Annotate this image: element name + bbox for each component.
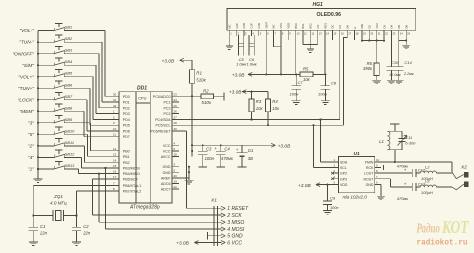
wire - AREF to ground net [179, 177, 189, 179]
svg-text:SB1: SB1 [65, 25, 72, 30]
svg-text:PC6/RESET: PC6/RESET [151, 129, 172, 133]
wire - PC0/ADC0 net [179, 95, 201, 97]
pushbutton SB4 (S/M) [22, 58, 112, 114]
svg-text:RCK: RCK [366, 166, 374, 170]
svg-text:13: 13 [113, 152, 117, 156]
resistor R5 10k [300, 67, 313, 82]
pin 24 PC1 of DD1 [164, 98, 180, 105]
pin 4 VCC of DD1 [163, 141, 179, 148]
svg-text:12: 12 [113, 147, 117, 151]
ground - C9 [323, 211, 332, 215]
connector X1 body rails [214, 206, 218, 246]
pin 3 of HG1 [242, 23, 247, 36]
svg-text:PC3: PC3 [164, 112, 171, 116]
svg-text:390к: 390к [363, 66, 373, 71]
wire - OLED pin17 SCL drop [344, 35, 348, 125]
wire - OLED pin15 stub [331, 35, 333, 40]
wire - XTAL1 line [33, 186, 112, 216]
svg-text:"MEM": "MEM" [19, 109, 34, 115]
node - bus junction [37, 168, 39, 170]
pin 26 PC3 of DD1 [164, 110, 180, 117]
IC U1 rda102v2.0 FM radio [339, 151, 375, 199]
node - crystal right [75, 214, 77, 216]
pin 19 ADC6 of DD1 [161, 180, 179, 187]
svg-text:PC5/SCL: PC5/SCL [156, 124, 171, 128]
svg-text:R4: R4 [272, 99, 278, 104]
svg-text:L2: L2 [425, 164, 430, 169]
pin 2 SCK of X1 [221, 213, 243, 219]
svg-text:SB13: SB13 [65, 163, 75, 168]
svg-text:HG1: HG1 [313, 2, 324, 8]
pushbutton SB9 (3) [28, 116, 112, 151]
wire - button common bus [37, 31, 39, 179]
svg-text:10к: 10к [272, 106, 280, 111]
node - rail/C7 [295, 73, 297, 75]
svg-text:20: 20 [174, 174, 178, 178]
pin 9 RCK of U1 [366, 164, 381, 170]
svg-text:+3.0В: +3.0В [162, 58, 175, 64]
svg-text:VCC: VCC [375, 23, 379, 29]
svg-text:100н: 100н [205, 156, 215, 161]
svg-text:AVCC: AVCC [161, 155, 171, 159]
svg-text:BS2: BS2 [309, 23, 313, 29]
svg-text:OLED0.96: OLED0.96 [317, 12, 342, 18]
terminal - GP2 open [331, 172, 334, 175]
svg-text:+3.0В: +3.0В [229, 90, 242, 96]
svg-text:18: 18 [174, 153, 178, 157]
svg-text:PC0/ADC0: PC0/ADC0 [153, 95, 171, 99]
svg-text:SCL: SCL [340, 166, 347, 170]
pin 11 PD7 of DD1 [112, 133, 130, 140]
svg-text:100н: 100н [330, 206, 339, 210]
ground - C7 [292, 101, 301, 105]
svg-text:100н: 100н [290, 92, 300, 97]
node - crystal left [32, 214, 34, 216]
svg-text:RES: RES [323, 23, 327, 29]
pin 3 GND of DD1 [163, 163, 180, 170]
capacitor C2 22p [72, 216, 91, 243]
svg-text:PD7: PD7 [123, 135, 130, 139]
pin 8 PB7/XTAL2 of DD1 [112, 187, 141, 194]
connector X1 label [210, 198, 217, 204]
svg-text:C3: C3 [206, 147, 212, 152]
svg-text:PB1: PB1 [123, 155, 130, 159]
pin 14 of HG1 [323, 23, 329, 36]
pin 6 GND of U1 [366, 181, 381, 187]
capacitor C10 10.0u [387, 35, 401, 80]
pin 15 of HG1 [331, 25, 337, 36]
wire - L2 to jack [437, 172, 453, 174]
pin 29 PC6/RESET of DD1 [151, 127, 179, 134]
pushbutton SB12 (4) [28, 150, 112, 168]
pin 7 of HG1 [272, 25, 277, 36]
pin 7 PB6/XTAL1 of DD1 [112, 182, 141, 189]
svg-text:10: 10 [113, 127, 117, 131]
svg-text:D4: D4 [390, 25, 394, 29]
node - SDA branch [319, 118, 321, 120]
node - C3 top [202, 144, 204, 146]
capacitor C3 100n [198, 145, 214, 167]
wire - VCC rail vertical [191, 96, 193, 156]
svg-text:D1: D1 [338, 25, 342, 29]
svg-text:"5": "5" [28, 132, 34, 138]
wire - SCL to U1 [314, 125, 333, 167]
svg-text:PB5/SCK: PB5/SCK [123, 178, 139, 182]
node - R4/SCL [267, 124, 269, 126]
capacitor C14 2.2u [394, 41, 414, 81]
pin 8 LOUT of U1 [364, 169, 381, 175]
svg-text:ADC6: ADC6 [161, 182, 171, 186]
svg-text:6-30п: 6-30п [405, 141, 416, 146]
pin 4 of HG1 [250, 23, 255, 36]
svg-text:C1: C1 [40, 224, 45, 229]
svg-text:23: 23 [174, 92, 178, 96]
pin 20 of HG1 [368, 25, 374, 36]
svg-text:DC: DC [331, 25, 335, 29]
svg-text:19: 19 [174, 180, 178, 184]
svg-text:C14: C14 [404, 60, 412, 65]
svg-text:PB0: PB0 [123, 149, 130, 153]
trimmer capacitor C11 6-30p [398, 131, 417, 150]
svg-text:C7: C7 [298, 80, 304, 85]
node - bus junction [37, 76, 39, 78]
svg-text:PD4: PD4 [123, 118, 130, 122]
wire - FMIN to jack [381, 162, 452, 172]
pin 1 SDA of U1 [333, 158, 348, 164]
svg-text:5 GND: 5 GND [227, 234, 243, 240]
svg-text:+: + [404, 182, 407, 187]
terminal - RCK [383, 165, 385, 170]
svg-text:16: 16 [113, 170, 117, 174]
svg-text:C2P: C2P [235, 23, 239, 28]
power +3.0V to X1 VCC [176, 241, 221, 247]
pin 11 of HG1 [301, 23, 307, 36]
svg-text:SB5: SB5 [65, 71, 73, 76]
pin 4 GP3 of U1 [333, 175, 348, 181]
svg-text:24: 24 [174, 98, 178, 102]
svg-text:470мк: 470мк [397, 196, 409, 201]
wire - +3.0V feed line [192, 144, 273, 146]
svg-text:15: 15 [113, 164, 117, 168]
svg-text:"S/M": "S/M" [22, 63, 34, 69]
svg-text:LOUT: LOUT [364, 172, 374, 176]
pin 13 of HG1 [316, 25, 322, 36]
capacitor C8 100n [318, 74, 337, 100]
svg-text:10: 10 [376, 158, 379, 162]
node - bus junction [37, 133, 39, 135]
node - bus junction [37, 64, 39, 66]
pin 20 AREF of DD1 [161, 174, 179, 181]
pin 18 AVCC of DD1 [161, 153, 179, 160]
svg-text:PC4/SDA: PC4/SDA [155, 118, 171, 122]
pin 22 ADC7 of DD1 [161, 185, 179, 192]
pin 10 of HG1 [294, 23, 300, 36]
svg-text:10к: 10к [256, 106, 264, 111]
wire - pullup top link [252, 92, 269, 99]
svg-text:ZQ1: ZQ1 [53, 194, 63, 199]
svg-text:VDD: VDD [340, 183, 348, 187]
wire - OLED pins19-22 tie [361, 35, 385, 41]
pin 27 PC4/SDA of DD1 [155, 115, 179, 122]
svg-text:D5: D5 [397, 25, 401, 29]
svg-text:"1": "1" [28, 167, 34, 173]
svg-text:+3.0В: +3.0В [278, 143, 291, 149]
svg-text:SB7: SB7 [65, 94, 73, 99]
svg-text:rda 102v2.0: rda 102v2.0 [343, 194, 368, 199]
node - C4 top [220, 144, 222, 146]
svg-text:PD5: PD5 [123, 124, 130, 128]
svg-text:"4": "4" [28, 155, 34, 161]
svg-text:3В: 3В [248, 156, 253, 161]
resistor R1 510k [190, 60, 207, 96]
resistor R3 10k [249, 92, 264, 120]
node - VCC pin4 [191, 144, 193, 146]
antenna terminal [390, 124, 399, 131]
wire - OLED pin14 drop [324, 35, 326, 74]
wire - OLED pin25 gnd tie [399, 35, 410, 49]
svg-text:"TUN+": "TUN+" [18, 86, 34, 92]
svg-text:PB2: PB2 [123, 161, 130, 165]
pin 23 PC0/ADC0 of DD1 [153, 92, 179, 99]
pushbutton SB3 (ON/OFF) [12, 46, 112, 107]
pin 6 VCC of X1 [221, 240, 243, 246]
pin 23 of HG1 [390, 25, 396, 36]
svg-text:SB2: SB2 [65, 36, 73, 41]
pin 9 of HG1 [286, 23, 291, 36]
power +3.0V to U1 VDD [298, 183, 328, 189]
connector X2 phone jack [452, 165, 469, 190]
pin 25 of HG1 [404, 25, 410, 36]
svg-text:PD1: PD1 [123, 101, 130, 105]
svg-text:32: 32 [113, 104, 117, 108]
svg-text:R2: R2 [203, 88, 209, 93]
svg-text:10к: 10к [303, 77, 311, 82]
node - bus junction [37, 41, 39, 43]
pin 25 PC2 of DD1 [164, 104, 180, 111]
svg-text:25: 25 [174, 104, 178, 108]
ground - MCU GND pins [184, 180, 193, 184]
svg-text:D2: D2 [368, 25, 372, 29]
pushbutton SB10 (5) [28, 127, 112, 156]
svg-text:4.0 МГц: 4.0 МГц [50, 200, 67, 205]
pin 12 PB0 of DD1 [112, 147, 130, 154]
svg-text:C4: C4 [224, 147, 230, 152]
svg-text:510к: 510к [196, 77, 206, 82]
pin 21 of HG1 [375, 23, 381, 36]
wire - OLED pins7-8 tie [274, 35, 282, 75]
ground - OLED pin1 [226, 35, 233, 49]
node - bus junction [37, 53, 39, 55]
svg-text:SB8: SB8 [65, 105, 73, 110]
pin 2 PD4 of DD1 [112, 115, 130, 122]
wire - MOSI to X1 [104, 167, 221, 229]
battery G1 3V [236, 145, 254, 167]
svg-text:PD2: PD2 [123, 106, 130, 110]
svg-text:VCC: VCC [163, 144, 171, 148]
svg-text:D3: D3 [382, 25, 386, 29]
svg-text:X1: X1 [210, 198, 217, 204]
pin 5 of HG1 [257, 23, 262, 36]
resistor R4 10k [265, 99, 280, 125]
svg-text:FMIN: FMIN [365, 161, 374, 165]
pin 8 of HG1 [279, 23, 284, 36]
pin 5 GND of DD1 [163, 168, 180, 175]
pin 18 of HG1 [353, 27, 359, 36]
pin 6 VCC of DD1 [163, 147, 179, 154]
svg-text:SB12: SB12 [65, 151, 75, 156]
node - bus junction [37, 156, 39, 158]
pin 24 of HG1 [397, 25, 403, 36]
svg-text:R5: R5 [303, 67, 309, 72]
svg-text:GND: GND [366, 183, 374, 187]
svg-text:ROUT: ROUT [363, 177, 374, 181]
ground - C14 [394, 80, 403, 84]
terminal - R2 output [223, 92, 225, 100]
power +3.0V arrow right [271, 143, 291, 149]
pin 3 MISO of X1 [221, 220, 244, 226]
wire - SCL line [179, 124, 344, 126]
svg-text:C2: C2 [83, 224, 89, 229]
pin 19 of HG1 [360, 24, 366, 36]
svg-text:D0: D0 [345, 25, 349, 29]
pin 16 PB4/MISO of DD1 [112, 170, 140, 177]
svg-text:NC: NC [272, 25, 276, 29]
wire - OLED pin16 SDA drop [339, 35, 341, 119]
pin 22 of HG1 [382, 25, 388, 36]
svg-text:SB4: SB4 [65, 59, 73, 64]
svg-text:PB3/MOSI: PB3/MOSI [123, 167, 140, 171]
wire - SDA to U1 [321, 120, 333, 163]
svg-text:1.0мк: 1.0мк [246, 62, 257, 67]
svg-text:PB6/XTAL1: PB6/XTAL1 [123, 184, 142, 188]
svg-text:SDA: SDA [340, 161, 348, 165]
pin 4 MOSI of X1 [221, 227, 245, 233]
pin 2 of HG1 [235, 23, 240, 36]
wire - SCK to X1 [93, 179, 222, 215]
capacitor C1 22p [29, 216, 48, 243]
pin 16 of HG1 [338, 25, 344, 36]
svg-text:+3.0В: +3.0В [298, 183, 311, 189]
wire - XTAL2 line [77, 191, 113, 216]
pin 12 of HG1 [309, 23, 315, 36]
svg-text:470мк: 470мк [397, 163, 409, 168]
svg-text:17: 17 [113, 175, 117, 179]
svg-text:+3.0В: +3.0В [232, 73, 245, 79]
wire - +3.0V rail [252, 73, 300, 75]
svg-text:SB9: SB9 [65, 117, 73, 122]
svg-text:CPU: CPU [138, 96, 146, 101]
wire - L3 to jack [437, 186, 453, 188]
pushbutton SB5 (VOL+) [18, 69, 112, 119]
pin 17 PB5/SCK of DD1 [112, 175, 139, 182]
svg-text:C1N: C1N [257, 23, 261, 28]
ground - R6 [372, 80, 381, 84]
svg-text:L1: L1 [379, 139, 384, 144]
svg-text:BS1: BS1 [301, 23, 305, 29]
pin 5 VDD of U1 [333, 181, 348, 187]
svg-text:C11: C11 [405, 135, 412, 140]
svg-text:DD1: DD1 [137, 85, 147, 91]
svg-text:2 SCK: 2 SCK [226, 213, 242, 219]
ground - U1 GND [377, 185, 385, 200]
capacitor C6 1.0u [246, 30, 258, 66]
svg-text:14: 14 [113, 158, 117, 162]
inductor L3 100uH [420, 178, 436, 194]
svg-text:30: 30 [113, 92, 117, 96]
node - bus junction [37, 87, 39, 89]
svg-text:AREF: AREF [161, 176, 171, 180]
capacitor C9 100n [323, 185, 339, 211]
node - bus junction [37, 99, 39, 101]
IC U-DD1 microcontroller ATmega328p [119, 85, 172, 210]
svg-text:C10: C10 [391, 60, 399, 65]
watermark radiokot.ru [417, 217, 470, 248]
power +3.0V to R1 [162, 58, 193, 64]
ground - C10 [387, 80, 396, 84]
svg-text:4 MOSI: 4 MOSI [227, 227, 245, 233]
svg-text:PD6: PD6 [123, 129, 130, 133]
crystal ZQ1 4.0MHz [33, 194, 76, 221]
pin 30 PD0 of DD1 [112, 92, 130, 99]
svg-text:22п: 22п [39, 231, 48, 236]
svg-text:PB4/MISO: PB4/MISO [123, 172, 140, 176]
capacitor C12 470u [381, 163, 426, 177]
power +3.0V to pullups [229, 90, 252, 96]
pin 1 PD3 of DD1 [112, 110, 130, 117]
pushbutton SB1 (VOL-) [19, 23, 112, 96]
pin 6 of HG1 [264, 21, 269, 35]
resistor R2 510k [201, 88, 224, 105]
svg-text:E: E [353, 27, 357, 29]
resistor R6 390k [363, 41, 379, 81]
svg-text:+: + [236, 147, 239, 152]
svg-text:22: 22 [174, 185, 178, 189]
node - bus junction [37, 122, 39, 124]
svg-text:C8: C8 [331, 80, 337, 85]
svg-text:ADC7: ADC7 [161, 188, 171, 192]
svg-text:G1: G1 [248, 148, 254, 153]
wire - OLED pin10 drop [295, 35, 297, 74]
svg-text:+: + [214, 146, 217, 151]
pushbutton SB13 (1) [28, 162, 112, 174]
svg-text:D6: D6 [404, 25, 408, 29]
inductor L1 [379, 131, 402, 150]
pin 1 of HG1 [228, 25, 233, 36]
svg-text:VDD: VDD [286, 23, 290, 29]
svg-text:"VOL+": "VOL+" [18, 74, 34, 80]
svg-text:+3.0В: +3.0В [176, 241, 189, 247]
node - VDD/C9 [326, 184, 328, 186]
wire - ROUT down [381, 179, 408, 187]
pushbutton SB8 (MEM) [19, 104, 112, 137]
svg-text:11: 11 [113, 133, 116, 137]
pin 32 PD2 of DD1 [112, 104, 130, 111]
node - bus junction [37, 145, 39, 147]
svg-text:КОТ: КОТ [441, 217, 469, 237]
pin 14 PB2 of DD1 [112, 158, 130, 165]
wire - OLED pin6 to +3.0V rail [265, 35, 267, 75]
svg-text:PD0: PD0 [123, 95, 130, 99]
svg-text:PD3: PD3 [123, 112, 130, 116]
svg-text:PB7/XTAL2: PB7/XTAL2 [123, 190, 142, 194]
svg-text:GP2: GP2 [340, 172, 347, 176]
node - R1/PC0/VCC junction [191, 95, 193, 97]
svg-text:28: 28 [174, 121, 178, 125]
pin 28 PC5/SCL of DD1 [156, 121, 179, 128]
svg-text:SB10: SB10 [65, 128, 75, 133]
ground - C1 [29, 242, 38, 246]
pin 7 ROUT of U1 [363, 175, 380, 181]
